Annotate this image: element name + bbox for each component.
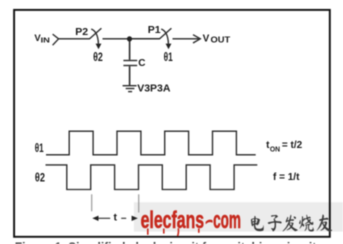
svg-text:Figure 1. Simplified clock cir: Figure 1. Simplified clock circuit for s… <box>15 240 323 244</box>
svg-text:C: C <box>138 58 145 69</box>
svg-text:= t/2: = t/2 <box>282 140 303 151</box>
svg-text:f = 1/t: f = 1/t <box>273 172 300 183</box>
svg-text:t: t <box>114 212 118 224</box>
svg-text:elecfans: elecfans <box>141 207 205 234</box>
svg-text:com: com <box>213 207 241 234</box>
svg-text:ON: ON <box>270 145 280 154</box>
svg-text:IN: IN <box>41 35 50 44</box>
svg-text:P2: P2 <box>75 26 88 38</box>
svg-text:θ2: θ2 <box>35 171 45 185</box>
svg-text:θ2: θ2 <box>93 50 103 64</box>
svg-text:θ1: θ1 <box>164 50 173 64</box>
svg-text:V: V <box>203 34 210 45</box>
svg-text:OUT: OUT <box>211 35 231 44</box>
svg-text:V3P3A: V3P3A <box>137 83 171 95</box>
svg-text:P1: P1 <box>148 24 161 36</box>
svg-text:θ1: θ1 <box>35 141 44 155</box>
